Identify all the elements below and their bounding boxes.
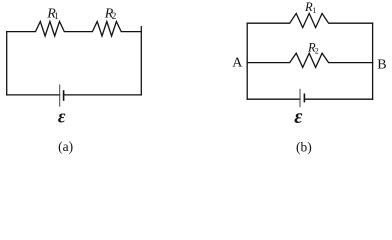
svg-text:ε: ε bbox=[294, 106, 303, 128]
svg-text:(b): (b) bbox=[296, 139, 312, 154]
svg-text:B: B bbox=[377, 58, 386, 73]
svg-text:(a): (a) bbox=[58, 139, 73, 154]
svg-text:1: 1 bbox=[312, 6, 316, 15]
svg-text:ε: ε bbox=[58, 107, 66, 127]
svg-text:A: A bbox=[232, 56, 243, 71]
svg-text:2: 2 bbox=[112, 11, 117, 21]
svg-text:1: 1 bbox=[54, 11, 59, 21]
svg-text:2: 2 bbox=[315, 46, 319, 55]
